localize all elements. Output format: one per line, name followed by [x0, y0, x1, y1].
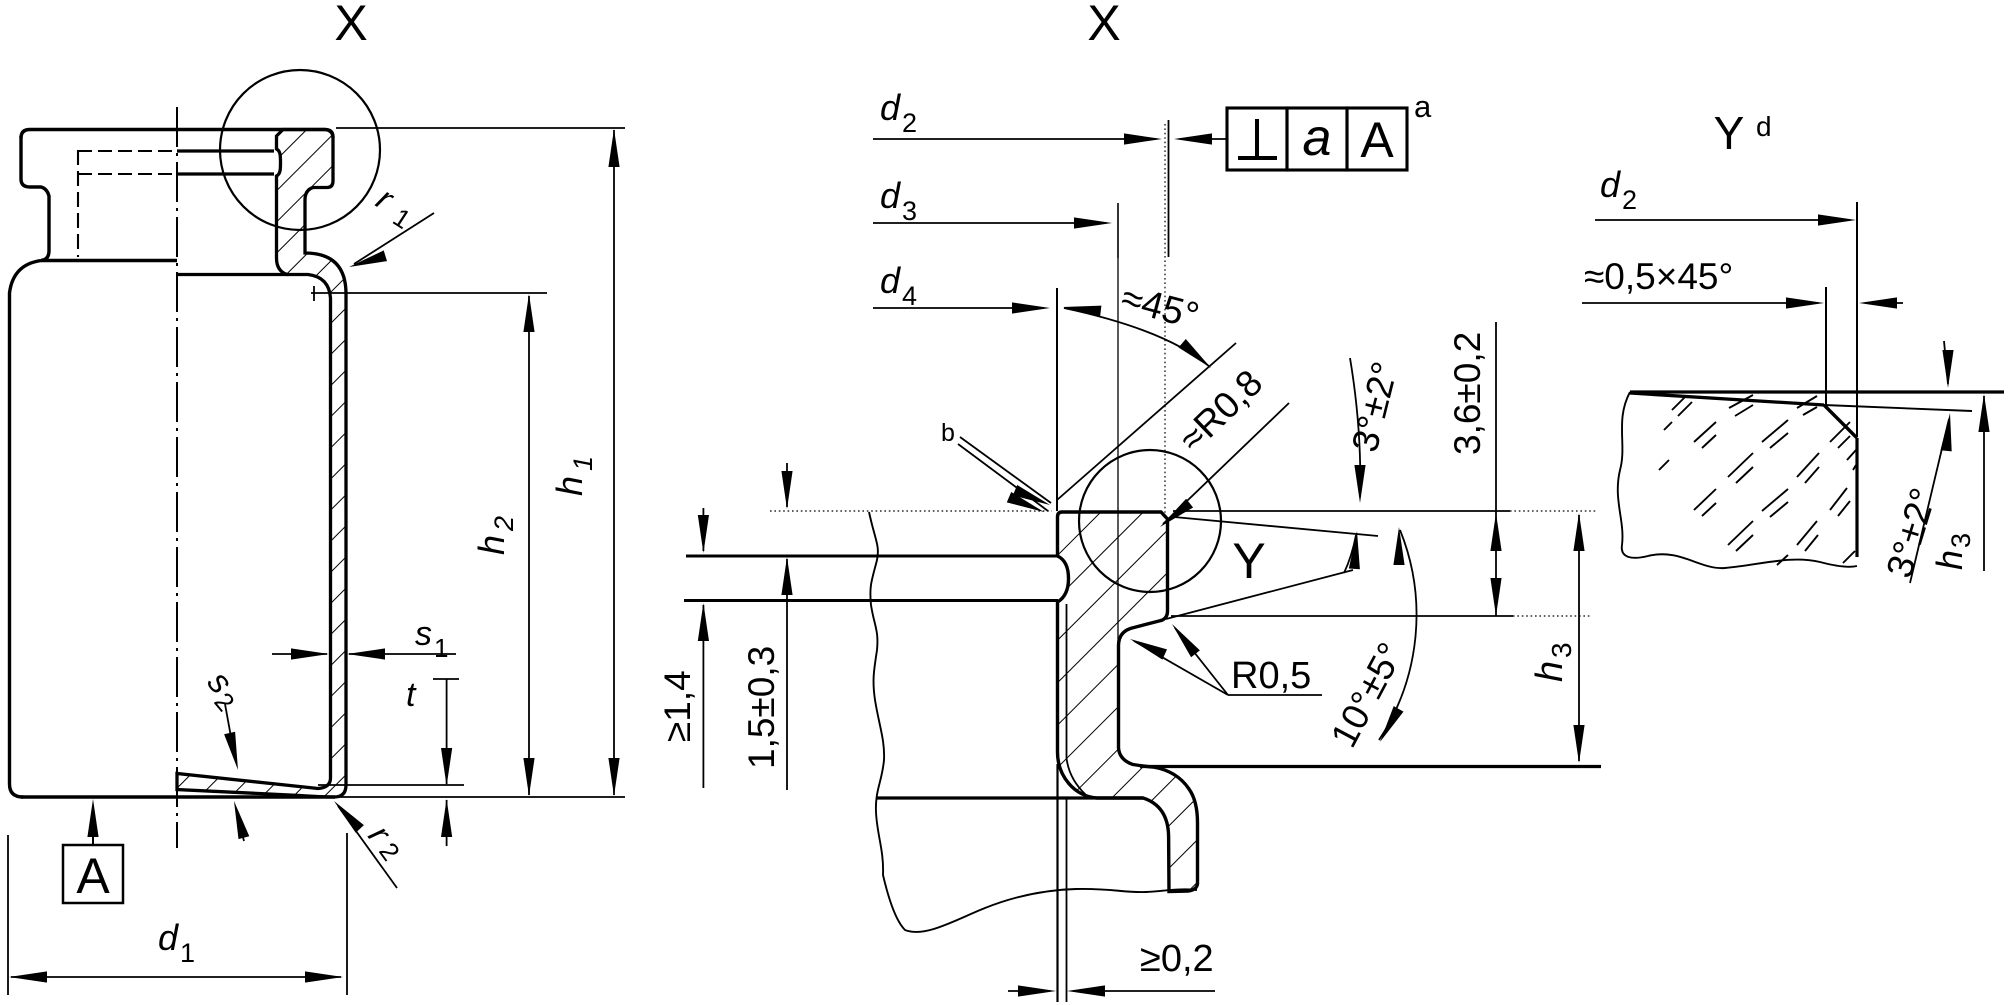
mouth bead line lower [684, 599, 1058, 602]
flange top line [21, 130, 333, 139]
svg-text:≥1,4: ≥1,4 [657, 670, 698, 742]
svg-text:10°±5°: 10°±5° [1323, 636, 1412, 754]
R0,5 label and leaders [1228, 694, 1322, 696]
h3 dimension (detail Y) [1983, 396, 1985, 571]
R0,8 leader [1163, 403, 1289, 524]
detail X glass section (hatched) [1057, 512, 1197, 892]
svg-text:X: X [334, 0, 367, 51]
svg-text:R0,5: R0,5 [1231, 655, 1311, 697]
base thin extension right [335, 796, 625, 798]
svg-text:a: a [1414, 89, 1432, 124]
svg-text:1: 1 [568, 456, 598, 471]
svg-text:2: 2 [489, 516, 519, 532]
svg-text:≥0,2: ≥0,2 [1140, 938, 1214, 980]
break outline [1618, 392, 1857, 568]
3deg+-2 leader (middle) [1350, 358, 1360, 497]
svg-text:1: 1 [434, 633, 448, 663]
h3 dimension (middle) [1578, 515, 1580, 761]
svg-text:b: b [941, 419, 955, 447]
wavy break line [869, 512, 1197, 932]
underside reference line [1171, 615, 1513, 617]
10deg slope line [1166, 570, 1353, 619]
svg-text:h: h [1529, 661, 1571, 682]
centerline [176, 107, 178, 848]
svg-text:h: h [1929, 550, 1970, 570]
svg-text:A: A [76, 848, 110, 904]
svg-text:≈0,5×45°: ≈0,5×45° [1584, 256, 1733, 297]
chamfer edge [1824, 405, 1857, 438]
svg-text:3: 3 [1546, 642, 1577, 658]
svg-text:A: A [1360, 112, 1394, 168]
3deg slope line [1174, 517, 1378, 536]
svg-text:Y: Y [1232, 533, 1265, 589]
sealing surface dotted extension left [770, 510, 1052, 512]
svg-text:2: 2 [902, 108, 917, 138]
svg-text:a: a [1303, 109, 1332, 167]
10deg+-5 angular arc [1379, 530, 1417, 740]
mouth bead line upper [686, 554, 1058, 557]
inner shoulder line right of centerline [177, 273, 289, 276]
h1 dimension [613, 130, 615, 795]
flange left edge and neck left [21, 136, 49, 261]
1,4 dimension [702, 508, 704, 551]
base line [21, 795, 335, 798]
sealing surface thin extension right [1173, 510, 1510, 512]
glass top reference line [1630, 390, 2004, 393]
inner residual glass line [1067, 604, 1087, 795]
svg-text:1: 1 [180, 938, 195, 968]
svg-text:d: d [1600, 164, 1621, 205]
svg-text:d: d [880, 175, 901, 216]
h2 extension [311, 292, 547, 294]
d2 extension line [1856, 202, 1858, 437]
svg-text:≈R0,8: ≈R0,8 [1171, 362, 1270, 460]
d1 dimension [7, 835, 9, 995]
inner shoulder line [877, 796, 1143, 799]
mouth bead line lower [177, 172, 274, 175]
hidden bore dashed left [78, 150, 177, 152]
svg-text:X: X [1087, 0, 1120, 51]
mouth bead line upper [177, 149, 274, 152]
svg-text:4: 4 [902, 281, 917, 311]
svg-text:3,6±0,2: 3,6±0,2 [1447, 332, 1488, 455]
45deg chamfer construction line [1057, 343, 1236, 500]
3deg extension line [1824, 405, 1972, 411]
svg-text:h: h [549, 476, 590, 496]
bore extension (>=0,2) [1056, 764, 1058, 1002]
svg-text:3°±2°: 3°±2° [1344, 358, 1406, 456]
3deg +-2deg callout (detail Y) [1944, 341, 1948, 384]
detail circle X [220, 70, 380, 230]
body left silhouette [10, 261, 42, 798]
svg-text:Y: Y [1714, 107, 1745, 159]
svg-text:2: 2 [1622, 185, 1637, 215]
MIDDLE FIGURE [657, 0, 1601, 1002]
svg-text:1: 1 [388, 202, 416, 235]
svg-text:d: d [158, 917, 179, 958]
3,6+-0,2 dimension [1495, 322, 1497, 616]
svg-text:t: t [406, 676, 417, 714]
svg-text:3: 3 [1946, 533, 1976, 548]
sloped sealing surface [1630, 393, 1824, 405]
shoulder line left [41, 259, 177, 262]
svg-text:≈45°: ≈45° [1117, 277, 1204, 338]
RIGHT FIGURE [1582, 107, 2004, 583]
t extension line [318, 784, 464, 786]
svg-text:d: d [1756, 111, 1772, 142]
outer shoulder top line [1140, 765, 1601, 768]
svg-text:s: s [415, 615, 432, 653]
svg-text:1,5±0,3: 1,5±0,3 [741, 646, 782, 769]
tolerance frame [1227, 108, 1287, 170]
svg-text:d: d [880, 87, 901, 128]
approx 45deg angular arc [1064, 308, 1210, 367]
datum A [87, 799, 98, 837]
sparse double hatching [1659, 395, 1856, 565]
svg-text:d: d [880, 260, 901, 301]
svg-text:3: 3 [902, 196, 917, 226]
h1 extension top [336, 127, 625, 129]
vial glass section (hatched) [177, 130, 346, 798]
svg-text:h: h [471, 535, 512, 555]
Y detail circle [1079, 450, 1221, 592]
chamfer projection line [1825, 287, 1827, 406]
dotted right edge [1855, 438, 1858, 557]
tolerance frame leader [1180, 138, 1227, 140]
LEFT FIGURE [8, 0, 625, 995]
h2 dimension [528, 296, 530, 795]
1,5+-0,3 dimension [786, 463, 788, 507]
